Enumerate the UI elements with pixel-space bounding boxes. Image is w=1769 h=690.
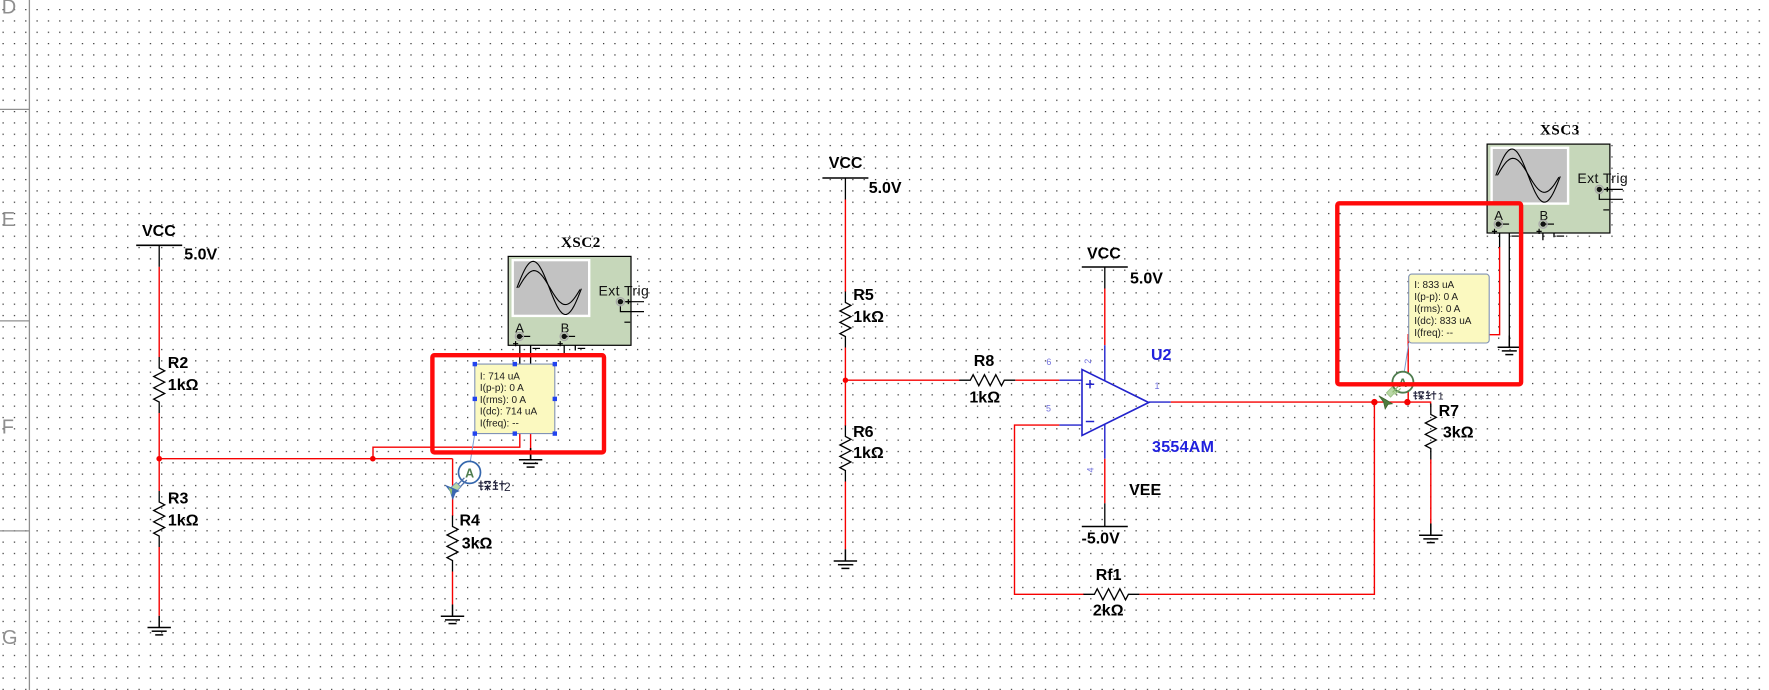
svg-text:D: D bbox=[2, 0, 16, 19]
XSC3 A lead red wire bbox=[1408, 247, 1499, 402]
svg-text:R6: R6 bbox=[853, 424, 874, 441]
junction J2 bbox=[370, 456, 376, 462]
wire R6 to ground G4 bbox=[844, 482, 846, 550]
svg-text:VEE: VEE bbox=[1129, 482, 1161, 499]
resistor R5 bbox=[840, 292, 851, 348]
wire R5 to J5 bbox=[844, 348, 846, 381]
yellow measurement box 2 bbox=[1409, 274, 1490, 343]
wire VCC3 stem to op-amp bbox=[1104, 289, 1106, 346]
resistor R6 bbox=[840, 426, 851, 482]
ground G1 bbox=[148, 616, 171, 635]
wire R4 drop bbox=[452, 459, 454, 516]
VCC3 symbol bbox=[1082, 267, 1128, 289]
svg-text:XSC3: XSC3 bbox=[1540, 123, 1580, 139]
resistor R8 bbox=[959, 375, 1015, 386]
svg-text:5.0V: 5.0V bbox=[1130, 271, 1163, 288]
svg-text:I(p-p): 0 A: I(p-p): 0 A bbox=[480, 383, 524, 394]
svg-text:R5: R5 bbox=[853, 287, 874, 304]
wire R2 to node J1 bbox=[158, 413, 160, 459]
svg-text:F: F bbox=[2, 417, 14, 439]
XSC3 B stubs bbox=[1543, 223, 1554, 240]
wire node horizontal J1 to R4 drop bbox=[159, 458, 452, 460]
resistor Rf1 bbox=[1083, 589, 1139, 600]
sheet border margin strip bbox=[0, 0, 29, 690]
selection handles bbox=[473, 362, 557, 436]
oscilloscope XSC3 bbox=[1487, 144, 1628, 236]
svg-text:1: 1 bbox=[1155, 381, 1160, 391]
svg-text:XSC2: XSC2 bbox=[561, 235, 601, 251]
svg-text:5.0V: 5.0V bbox=[869, 180, 902, 197]
wire branch J2 up-left to XSC2 A lead bbox=[373, 364, 520, 459]
svg-text:I(dc): 833 uA: I(dc): 833 uA bbox=[1414, 316, 1472, 327]
svg-text:-5.0V: -5.0V bbox=[1082, 531, 1121, 548]
op-amp U1 bbox=[1059, 345, 1170, 459]
ground G5 (under XSC3) bbox=[1498, 336, 1521, 355]
svg-text:I(rms): 0 A: I(rms): 0 A bbox=[1414, 304, 1460, 315]
red selection rectangle 1 bbox=[432, 355, 604, 452]
wire Rf1 right to feedback riser bbox=[1139, 402, 1374, 594]
XSC2 B stubs bbox=[564, 337, 575, 354]
yellow measurement box 1 bbox=[473, 362, 557, 436]
svg-text:I(freq): --: I(freq): -- bbox=[1414, 328, 1453, 339]
wire R4 to ground G2 bbox=[452, 572, 454, 605]
svg-text:1: 1 bbox=[1438, 391, 1444, 403]
svg-text:R7: R7 bbox=[1439, 403, 1460, 420]
svg-text:Rf1: Rf1 bbox=[1096, 567, 1122, 584]
svg-text:3kΩ: 3kΩ bbox=[1443, 425, 1474, 442]
svg-text:I(p-p): 0 A: I(p-p): 0 A bbox=[1414, 292, 1458, 303]
svg-text:I(dc): 714 uA: I(dc): 714 uA bbox=[480, 407, 538, 418]
svg-text:R2: R2 bbox=[168, 355, 189, 372]
probe1 leader line bbox=[1404, 343, 1408, 372]
VCC2 symbol bbox=[822, 178, 868, 200]
wire R3 to ground G1 bbox=[158, 547, 160, 616]
XSC2 A black stub bbox=[519, 337, 521, 365]
svg-text:1kΩ: 1kΩ bbox=[168, 377, 199, 394]
svg-text:R3: R3 bbox=[168, 491, 189, 508]
probe1 circle with A bbox=[1392, 372, 1413, 393]
VEE symbol bbox=[1082, 503, 1128, 526]
svg-text:I: 714 uA: I: 714 uA bbox=[480, 371, 520, 382]
svg-text:5.0V: 5.0V bbox=[184, 247, 217, 264]
ground G3 (under XSC2) bbox=[519, 448, 542, 467]
probe2 leader line bbox=[470, 434, 475, 462]
svg-text:I: 833 uA: I: 833 uA bbox=[1414, 280, 1454, 291]
resistor R2 bbox=[154, 357, 165, 413]
probe1 arrow bbox=[1379, 386, 1397, 409]
junction J4 bbox=[1404, 399, 1410, 405]
junction J3 bbox=[1371, 399, 1377, 405]
svg-text:3kΩ: 3kΩ bbox=[462, 536, 493, 553]
wire J5 to R6 bbox=[844, 380, 846, 426]
svg-text:1kΩ: 1kΩ bbox=[853, 309, 884, 326]
probe2 arrow bbox=[445, 482, 461, 500]
svg-text:1kΩ: 1kΩ bbox=[168, 513, 199, 530]
svg-text:2: 2 bbox=[1083, 359, 1093, 364]
svg-text:1kΩ: 1kΩ bbox=[853, 445, 884, 462]
ground G4 bbox=[834, 549, 857, 568]
resistor R4 bbox=[447, 516, 458, 572]
svg-text:E: E bbox=[2, 209, 15, 231]
wire op-amp output to R7 corner bbox=[1171, 402, 1431, 404]
wire op-amp to VEE bbox=[1104, 459, 1106, 504]
svg-text:A: A bbox=[465, 466, 474, 480]
oscilloscope XSC2 bbox=[508, 256, 649, 348]
ground G2 bbox=[441, 605, 464, 624]
wire R7 to ground G6 bbox=[1430, 460, 1432, 524]
svg-text:U2: U2 bbox=[1151, 347, 1172, 364]
VCC1 symbol bbox=[136, 245, 182, 266]
svg-text:6: 6 bbox=[1046, 357, 1051, 367]
svg-text:I(rms): 0 A: I(rms): 0 A bbox=[480, 395, 526, 406]
wire R8 to op-amp plus stub bbox=[1015, 379, 1059, 381]
svg-text:G: G bbox=[2, 627, 18, 649]
wire XSC2 hook to ground G3 bbox=[530, 364, 532, 450]
wire VCC2 rail to R5 bbox=[844, 200, 846, 293]
svg-text:R4: R4 bbox=[460, 513, 481, 530]
wire feedback minus input bbox=[1015, 425, 1085, 594]
resistor R3 bbox=[154, 491, 165, 547]
probe1 label (tan zhen 1) bbox=[1413, 391, 1436, 400]
svg-text:2kΩ: 2kΩ bbox=[1093, 603, 1124, 620]
svg-text:R8: R8 bbox=[974, 353, 995, 370]
svg-text:VCC: VCC bbox=[829, 155, 863, 172]
ground G6 (under R7) bbox=[1419, 524, 1442, 543]
svg-text:3554AM: 3554AM bbox=[1152, 439, 1214, 456]
probe2 label (tan zhen 2) bbox=[479, 480, 505, 490]
svg-text:1kΩ: 1kΩ bbox=[969, 390, 1000, 407]
wire VCC1 rail down to R2 bbox=[158, 267, 160, 358]
probe2 circle with A bbox=[459, 461, 481, 483]
XSC3 hook black wire to ground G5 bbox=[1500, 223, 1510, 335]
svg-text:VCC: VCC bbox=[1087, 245, 1121, 262]
resistor R7 bbox=[1425, 404, 1436, 460]
wire J1 down to R3 bbox=[158, 459, 160, 491]
junction J1 bbox=[156, 456, 162, 462]
junction J5 bbox=[843, 378, 848, 383]
svg-text:I(freq): --: I(freq): -- bbox=[480, 419, 519, 430]
svg-text:VCC: VCC bbox=[142, 223, 176, 240]
XSC3 A black stub bbox=[1499, 223, 1501, 247]
svg-text:4: 4 bbox=[1085, 467, 1095, 472]
svg-text:5: 5 bbox=[1046, 403, 1051, 413]
XSC2 hook black stub bbox=[520, 337, 531, 365]
svg-text:2: 2 bbox=[504, 480, 511, 494]
red selection rectangle 2 bbox=[1337, 203, 1521, 384]
wire J5 to R8 bbox=[845, 379, 959, 381]
